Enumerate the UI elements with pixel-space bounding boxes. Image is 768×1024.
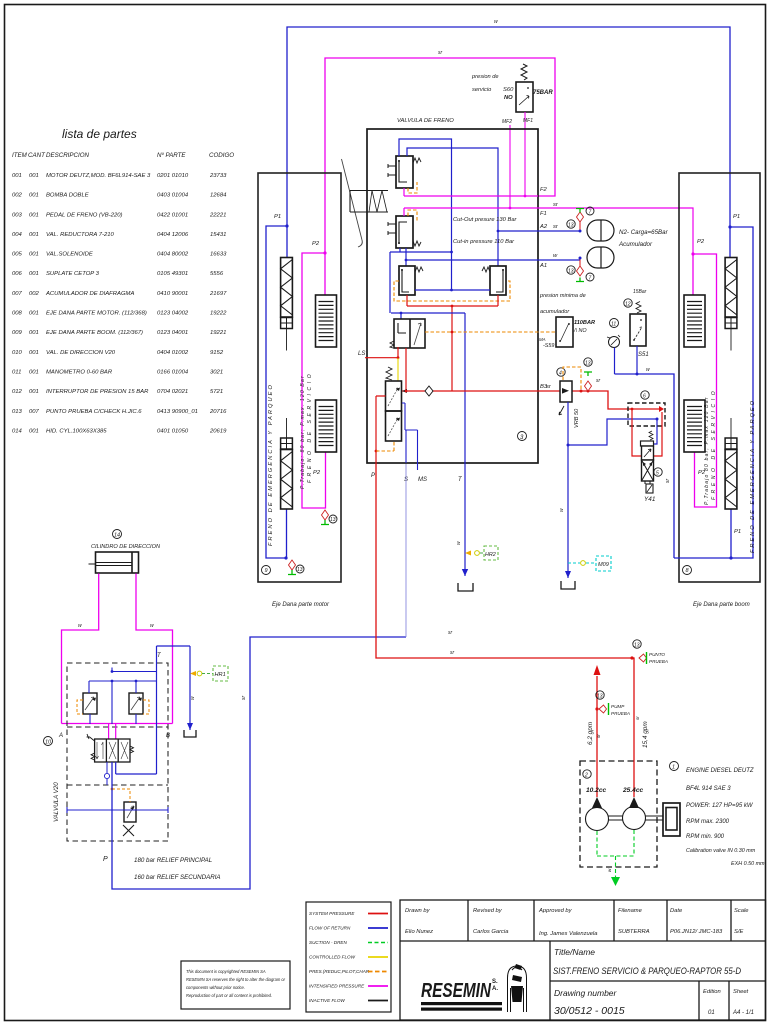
svg-text:013: 013 [12, 409, 23, 415]
svg-text:001: 001 [29, 232, 39, 238]
svg-text:M09: M09 [598, 562, 609, 568]
svg-text:110BAR: 110BAR [574, 320, 595, 326]
valve V4 arrow [414, 323, 421, 345]
svg-text:Filename: Filename [618, 908, 643, 914]
V20 relief valve right [129, 693, 143, 714]
axle panel: Eje Dana parte boom enclosure [679, 173, 760, 582]
V20 bypass line (blue) [67, 807, 168, 813]
pump shaft coupling lines [609, 816, 664, 820]
wire MF2 (magenta) to F1 net [509, 125, 511, 208]
svg-text:PUNTO PRUEBA C/CHECK H.JIC.6: PUNTO PRUEBA C/CHECK H.JIC.6 [46, 409, 142, 415]
svg-text:BOMBA DOBLE: BOMBA DOBLE [46, 193, 89, 199]
engine item circle 1 [670, 762, 679, 771]
svg-text:008: 008 [12, 311, 23, 317]
svg-text:acumulador: acumulador [540, 309, 570, 315]
directional valve lever [87, 734, 95, 741]
legend sample: suction-dren (green dashed) [368, 942, 388, 944]
svg-text:001: 001 [29, 212, 39, 218]
title block values [405, 929, 743, 937]
service brake stack upper-right [684, 295, 705, 347]
svg-text:7: 7 [589, 210, 592, 216]
valve V4 spring [390, 341, 394, 348]
bottom relief adjuster cross [123, 825, 134, 836]
V20 bottom relief valve [124, 802, 136, 822]
V20 directional valve body [95, 739, 130, 762]
solenoid valve Y41 body [641, 441, 654, 446]
svg-text:VAL.SOLENOIDE: VAL.SOLENOIDE [46, 252, 93, 258]
valve V3a spring [415, 267, 423, 272]
svg-text:21697: 21697 [209, 291, 227, 297]
svg-text:FRENO DE SERVICIO: FRENO DE SERVICIO [307, 371, 313, 483]
svg-text:SUBTERRA: SUBTERRA [618, 929, 650, 935]
svg-text:Sheet: Sheet [733, 989, 749, 995]
svg-text:w: w [607, 868, 612, 872]
S51 spring [636, 302, 641, 314]
wire: T drain of valve block to tank (blue) [464, 463, 466, 576]
svg-text:EXH 0.50 mm: EXH 0.50 mm [731, 861, 765, 867]
svg-text:FLOW OF RETURN: FLOW OF RETURN [309, 926, 351, 931]
svg-text:POWER: 127 HP=95 kW: POWER: 127 HP=95 kW [686, 803, 754, 809]
legend sample: controlled flow (yellow) [368, 956, 388, 958]
svg-text:w: w [190, 696, 196, 700]
svg-text:012: 012 [12, 389, 23, 395]
pressure gauge [609, 337, 620, 348]
svg-text:Carlos Garcia: Carlos Garcia [473, 929, 509, 935]
svg-text:0413 90900_01: 0413 90900_01 [157, 409, 198, 415]
circled 3 block item number [518, 432, 527, 442]
svg-text:RESEMIN SA reserves the right: RESEMIN SA reserves the right to alter t… [186, 977, 286, 982]
svg-text:3021: 3021 [210, 370, 223, 376]
svg-text:P1: P1 [274, 214, 281, 220]
svg-text:w: w [456, 541, 462, 545]
left panel item circle [262, 566, 271, 575]
valve V1 pilot loop (orange dashed) [408, 182, 417, 193]
measuring circle below valve [104, 773, 109, 778]
wire: B3 line (red) with check [402, 390, 538, 392]
svg-text:6,2 gpm: 6,2 gpm [587, 721, 594, 745]
svg-text:Revised by: Revised by [473, 908, 503, 914]
svg-text:w: w [78, 623, 82, 629]
svg-text:0166 01004: 0166 01004 [157, 370, 189, 376]
svg-text:FRENO DE EMERGENCIA Y PARQEO: FRENO DE EMERGENCIA Y PARQEO [750, 399, 756, 553]
pedal linkage rails [350, 191, 388, 213]
svg-text:CONTROLLED FLOW: CONTROLLED FLOW [309, 955, 356, 960]
label presion de servicio [471, 74, 499, 93]
svg-text:P2: P2 [313, 470, 321, 476]
svg-text:BF4L 914 SAE 3: BF4L 914 SAE 3 [686, 786, 731, 792]
svg-text:0410 90001: 0410 90001 [157, 291, 188, 297]
svg-text:FRENO DE EMERGENCIA Y PARQUEO: FRENO DE EMERGENCIA Y PARQUEO [268, 383, 274, 546]
solenoid manifold dashed box item 6 [628, 403, 665, 426]
svg-text:S60: S60 [503, 87, 514, 93]
wire: B3 supply through reducing valve (red) [538, 391, 659, 409]
svg-text:P06.JN12/ JMC-183: P06.JN12/ JMC-183 [670, 929, 723, 935]
valve V3b spring [482, 267, 490, 272]
svg-text:001: 001 [29, 311, 39, 317]
solenoid valve Y41 spring [649, 431, 653, 440]
svg-text:This document is copyrighted R: This document is copyrighted RESEMIN SA [186, 969, 266, 974]
legend sample: flow of return (blue) [368, 927, 388, 929]
svg-text:-S59: -S59 [543, 343, 554, 349]
svg-text:19222: 19222 [210, 311, 227, 317]
svg-text:009: 009 [12, 330, 23, 336]
axle panel: Eje Dana parte motor enclosure [258, 173, 341, 582]
bottom relief pilot (orange dashed) [112, 789, 130, 802]
svg-text:0105 49301: 0105 49301 [157, 271, 188, 277]
svg-text:006: 006 [12, 271, 23, 277]
svg-text:160 bar RELIEF SECUNDARIA: 160 bar RELIEF SECUNDARIA [134, 874, 221, 881]
switch S51 item circle 12 [624, 299, 632, 307]
svg-text:PRUEBA: PRUEBA [611, 711, 630, 716]
legend sample: inactive flow (black) [368, 1000, 388, 1002]
wire MF1 (magenta) S60 to F2 net [524, 112, 526, 196]
svg-text:VALVULA DE FRENO: VALVULA DE FRENO [397, 118, 454, 124]
spring brake actuator lower-right [730, 418, 732, 438]
svg-text:SYSTEM PRESSURE: SYSTEM PRESSURE [309, 911, 355, 916]
parts list header row [12, 152, 234, 159]
svg-text:EJE DANA PARTE MOTOR. (112/368: EJE DANA PARTE MOTOR. (112/368) [46, 311, 147, 317]
svg-text:VALVULA V20: VALVULA V20 [53, 782, 60, 822]
svg-text:w: w [553, 253, 558, 259]
wire: S line from valve block (light blue) [405, 464, 407, 637]
svg-text:P2: P2 [312, 241, 320, 247]
svg-text:PUNTO: PUNTO [649, 652, 665, 657]
pressure switch S60 body [516, 82, 533, 112]
svg-text:sr: sr [448, 630, 453, 636]
label relief settings [134, 857, 221, 881]
reducing valve drain arrow [559, 406, 564, 415]
Y41 drain stub [645, 481, 650, 484]
wire: V3 bottoms to B3 riser (red) [407, 295, 498, 391]
svg-text:MOTOR DEUTZ,MOD. BF6L914-SAE 3: MOTOR DEUTZ,MOD. BF6L914-SAE 3 [46, 173, 151, 179]
svg-text:presion minima de: presion minima de [539, 293, 586, 299]
svg-text:25.4cc: 25.4cc [622, 787, 644, 794]
wire: cylinder lines (magenta) [62, 574, 173, 724]
svg-text:ITEM: ITEM [12, 152, 28, 159]
svg-text:DESCRIPCION: DESCRIPCION [46, 152, 90, 159]
svg-text:sr: sr [438, 50, 443, 56]
label S60 NO [503, 87, 514, 101]
pressure switch S51 body [630, 314, 646, 346]
svg-text:Cut-Out presure 130 Bar: Cut-Out presure 130 Bar [453, 217, 518, 223]
svg-text:Nº PARTE: Nº PARTE [157, 152, 186, 159]
valve V2 spring [413, 241, 421, 246]
svg-text:01: 01 [708, 1010, 715, 1016]
svg-text:S.: S. [492, 979, 498, 985]
svg-text:sr: sr [241, 696, 247, 701]
service brake stack upper-left [316, 295, 337, 347]
svg-text:P2: P2 [697, 239, 705, 245]
wire: S51 to header (blue) [636, 346, 638, 374]
svg-text:8: 8 [686, 568, 690, 574]
wire: V20 work ports (magenta drops) [109, 724, 116, 739]
A1 test point check [579, 258, 581, 267]
svg-text:5721: 5721 [210, 389, 223, 395]
pump 25.4cc circle [623, 807, 646, 830]
wire: V4 to B3 line (red) [405, 348, 407, 391]
svg-text:Approved by: Approved by [538, 908, 573, 914]
S60 contact lever [519, 96, 529, 106]
title block header labels [405, 908, 749, 914]
svg-text:13: 13 [330, 517, 336, 523]
accumulator N2 capsule [587, 247, 614, 268]
wire: V2 bottom to bridge (blue) [390, 248, 452, 313]
svg-text:MF2: MF2 [502, 119, 512, 125]
brake valve block enclosure [367, 129, 538, 463]
svg-text:F2: F2 [540, 187, 548, 193]
svg-text:16633: 16633 [210, 252, 227, 258]
svg-text:PUMP: PUMP [611, 704, 625, 709]
wire: V1 top to long vertical (blue) [399, 139, 452, 290]
svg-text:001: 001 [29, 271, 39, 277]
svg-text:001: 001 [29, 252, 39, 258]
V6 pilot (orange dashed) [376, 441, 394, 451]
svg-text:P.Trabajo 80 bar; P.max 120 Ba: P.Trabajo 80 bar; P.max 120 Bar [704, 396, 710, 505]
svg-text:MF1: MF1 [523, 118, 533, 124]
gauge item circle 11 [610, 319, 619, 328]
labels Cut-Out / Cut-in pressure [453, 217, 518, 245]
svg-text:EJE DANA PARTE BOOM. (112/367): EJE DANA PARTE BOOM. (112/367) [46, 330, 143, 336]
relief valve V5 spring [386, 367, 392, 380]
right panel item circle [683, 566, 692, 575]
wire: pump 25.4cc pressure line (red) to valve block P [376, 463, 634, 797]
svg-text:11: 11 [611, 322, 616, 328]
pedal return spring [369, 191, 387, 213]
valve V3a body [399, 266, 415, 295]
svg-text:20716: 20716 [209, 409, 227, 415]
directional valve arrows [96, 742, 104, 1024]
wire: V3 bridge (blue) [415, 289, 490, 291]
svg-text:sr: sr [450, 650, 455, 656]
svg-text:HR1: HR1 [215, 672, 226, 678]
svg-text:A.: A. [492, 986, 498, 992]
valve V2 pilot loop (orange dashed) [408, 210, 417, 221]
svg-text:1: 1 [672, 765, 675, 771]
svg-text:VRB 50: VRB 50 [574, 408, 580, 428]
svg-text:HR2: HR2 [485, 552, 496, 558]
svg-text:lista de partes: lista de partes [62, 127, 137, 141]
wire: reducing valve outlet to drain header (blue) [567, 402, 569, 445]
svg-text:19221: 19221 [210, 330, 226, 336]
svg-text:HID. CYL.100X63X385: HID. CYL.100X63X385 [46, 428, 107, 434]
A2 test point check [579, 222, 581, 231]
relief valve V5 body [386, 381, 402, 411]
svg-text:010: 010 [12, 350, 23, 356]
reducing valve body [560, 381, 572, 402]
svg-text:011: 011 [12, 370, 21, 376]
svg-text:5: 5 [656, 471, 659, 477]
svg-text:RPM max. 2300: RPM max. 2300 [686, 819, 730, 825]
valve V20 item circle 10 [44, 737, 53, 746]
svg-text:0401 01050: 0401 01050 [157, 428, 189, 434]
svg-text:sr: sr [546, 384, 552, 390]
svg-text:001: 001 [12, 173, 22, 179]
valve V2 pilot stubs [388, 222, 396, 235]
svg-text:6: 6 [643, 394, 646, 400]
spring brake actuator lower-left [286, 418, 288, 438]
svg-text:13: 13 [585, 361, 591, 367]
svg-text:w: w [494, 19, 498, 25]
svg-text:INTENSIFIED PRESSURE: INTENSIFIED PRESSURE [309, 984, 365, 989]
relief valve V6 body [386, 411, 402, 441]
V3 pilot loop (orange dashed) [394, 281, 510, 301]
svg-text:CODIGO: CODIGO [209, 152, 234, 159]
solenoid valve Y41 red loop [632, 409, 662, 456]
engine coupling box [663, 803, 680, 836]
svg-text:Eje Dana parte motor: Eje Dana parte motor [272, 602, 330, 608]
svg-text:sr: sr [665, 479, 671, 484]
svg-text:Ing. James Valenzuela: Ing. James Valenzuela [539, 931, 598, 937]
svg-text:RPM min. 900: RPM min. 900 [686, 834, 725, 840]
brake pedal lever [342, 159, 363, 247]
svg-text:Edition: Edition [703, 989, 721, 995]
legend sample: intensified pressure (magenta) [368, 985, 388, 987]
svg-text:0403 01004: 0403 01004 [157, 193, 189, 199]
svg-text:PRUEBA: PRUEBA [649, 659, 668, 664]
svg-text:PRES.(REDUC,PILOT,CHAR: PRES.(REDUC,PILOT,CHAR [309, 969, 370, 974]
svg-text:Calibration valve IN 0.30 mm: Calibration valve IN 0.30 mm [686, 848, 756, 854]
svg-text:T: T [157, 653, 162, 659]
svg-text:Y41: Y41 [644, 496, 656, 503]
svg-text:004: 004 [12, 232, 23, 238]
title block frame [400, 900, 766, 1020]
svg-text:001: 001 [29, 389, 39, 395]
svg-text:RESEMIN: RESEMIN [421, 980, 491, 1002]
svg-text:P1: P1 [733, 214, 740, 220]
controlled-flow pilot segment (yellow) [397, 358, 399, 381]
valve V4 solenoid body [394, 319, 425, 348]
wire: right panel P1 circuit (blue) [674, 227, 753, 558]
svg-text:001: 001 [29, 428, 39, 434]
svg-text:0422 01001: 0422 01001 [157, 212, 188, 218]
wire F1 (magenta) to right panel P2 [404, 208, 693, 254]
service brake stack lower-left [316, 400, 337, 452]
wire: left panel P2 circuit (magenta) [302, 253, 326, 508]
svg-text:0404 12006: 0404 12006 [157, 232, 189, 238]
svg-text:sr: sr [596, 734, 601, 738]
wire: drain to tank (blue) [567, 445, 569, 578]
svg-text:S/E: S/E [734, 929, 743, 935]
svg-text:7: 7 [589, 276, 592, 282]
svg-text:Scale: Scale [734, 908, 749, 914]
legend box [306, 902, 391, 1012]
svg-text:NO: NO [504, 95, 513, 101]
measuring tap HR1 [190, 671, 196, 676]
svg-text:2: 2 [584, 773, 588, 779]
svg-text:014: 014 [12, 428, 23, 434]
svg-text:12684: 12684 [210, 193, 227, 199]
svg-text:INTERRUPTOR DE PRESION 15 BAR: INTERRUPTOR DE PRESION 15 BAR [46, 389, 149, 395]
accumulator N1 capsule [587, 220, 614, 241]
valve V1 spring [413, 158, 421, 163]
svg-text:MANOMETRO 0-60 BAR: MANOMETRO 0-60 BAR [46, 370, 113, 376]
svg-text:002: 002 [12, 193, 23, 199]
wire: P2 service-brake main line (magenta) left-panel to F2 port [325, 58, 555, 253]
parts list rows [12, 173, 227, 434]
wire: P1 emergency-brake main line (blue) left-panel to right-panel [287, 27, 730, 227]
pump 10.2cc circle [586, 808, 609, 831]
svg-text:MS: MS [418, 477, 427, 483]
wire: A2 accumulator line (blue) [498, 230, 580, 232]
service brake stack lower-right [684, 400, 705, 452]
A1 test point item circles 13 and 7 [567, 266, 575, 274]
port labels P S MS T [371, 473, 463, 483]
RESEMIN logo underline bars [421, 1002, 502, 1005]
svg-text:180 bar RELIEF PRINCIPAL: 180 bar RELIEF PRINCIPAL [134, 857, 213, 864]
svg-text:N2- Carga=65Bar: N2- Carga=65Bar [619, 229, 669, 236]
svg-text:S51: S51 [638, 352, 649, 358]
check valve diamond on B3 [425, 386, 433, 396]
svg-text:B: B [166, 733, 170, 739]
wire F2 (magenta) [404, 188, 538, 196]
svg-text:15431: 15431 [210, 232, 226, 238]
svg-text:001: 001 [29, 330, 39, 336]
svg-text:0201 01010: 0201 01010 [157, 173, 189, 179]
wire A1 (blue) valve V2 to accumulator [406, 248, 580, 266]
svg-text:T: T [458, 477, 463, 483]
svg-text:Eje Dana parte boom: Eje Dana parte boom [693, 602, 750, 608]
svg-text:10.2cc: 10.2cc [586, 787, 607, 794]
engine text block [686, 768, 765, 867]
svg-text:A4 - 1/1: A4 - 1/1 [732, 1010, 754, 1016]
double pump dashed box item 2 [580, 761, 657, 867]
svg-text:003: 003 [12, 212, 23, 218]
left panel blue test point [289, 560, 296, 570]
wire: P supply to V5 (red) [376, 396, 386, 463]
svg-text:VAL. DE DIRECCION V20: VAL. DE DIRECCION V20 [46, 350, 116, 356]
svg-text:20619: 20619 [209, 428, 227, 434]
valve V4 pilot line to MA-S59 (orange dashed) [425, 331, 556, 333]
wire: V20 P port (blue) [112, 637, 406, 889]
svg-text:0404 01002: 0404 01002 [157, 350, 189, 356]
valve V1 pilot stubs [388, 164, 396, 177]
V20 dashed enclosure [67, 663, 168, 841]
svg-text:001: 001 [29, 370, 39, 376]
wire: V1 second pin to A2 riser (blue) [407, 148, 498, 266]
wire: header to right panel (blue) [615, 374, 675, 558]
svg-text:001: 001 [29, 173, 39, 179]
svg-text:A1: A1 [539, 263, 547, 269]
svg-text:P1: P1 [734, 529, 741, 535]
svg-text:Drawing number: Drawing number [554, 988, 618, 998]
svg-text:VAL. REDUCTORA 7-210: VAL. REDUCTORA 7-210 [46, 232, 114, 238]
steering cylinder body [96, 552, 139, 573]
spring brake actuator upper-right [725, 258, 737, 318]
svg-text:ACUMULADOR DE DIAFRAGMA: ACUMULADOR DE DIAFRAGMA [45, 291, 134, 297]
svg-text:001: 001 [29, 193, 39, 199]
wire: drain header to solenoid section (blue) [568, 419, 657, 445]
svg-text:sr: sr [635, 716, 640, 720]
svg-text:Drawn by: Drawn by [405, 908, 431, 914]
tank symbol V20 [187, 723, 193, 730]
tank symbol under drain [565, 571, 571, 578]
svg-text:A2: A2 [539, 224, 548, 230]
RESEMIN miner figure [508, 966, 527, 1012]
svg-text:CILINDRO DE DIRECCION: CILINDRO DE DIRECCION [91, 544, 161, 550]
wire: tank header (blue) to T port [391, 313, 465, 463]
svg-text:13: 13 [568, 269, 574, 275]
svg-text:30/0512 - 0015: 30/0512 - 0015 [554, 1005, 625, 1017]
svg-text:005: 005 [12, 252, 23, 258]
wire: V5/V6 outlet to S and MS ports (blue) [402, 403, 418, 470]
pressure switch MA-S59 body [556, 317, 573, 347]
test point on pump2 line [639, 654, 647, 662]
port labels F2 F1 A2 A1 B3 [539, 187, 559, 390]
svg-text:12: 12 [625, 302, 631, 308]
svg-text:0123 04002: 0123 04002 [157, 311, 189, 317]
svg-text:007: 007 [12, 291, 23, 297]
svg-text:0123 04001: 0123 04001 [157, 330, 188, 336]
